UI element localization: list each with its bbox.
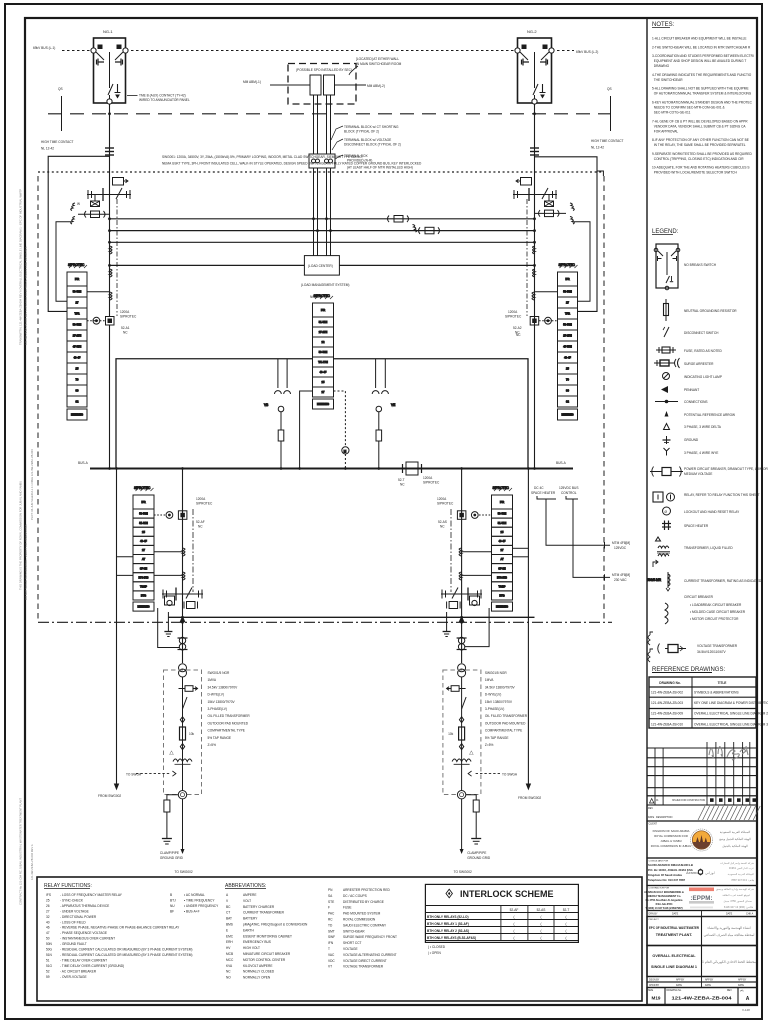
svg-text:METERING: METERING [137,607,149,609]
svg-text:FROM SWG002: FROM SWG002 [518,796,541,800]
wire lower-left feeder [182,469,184,664]
interlock scheme table [425,884,578,942]
svg-text:M: M [344,449,347,453]
svg-text:SWF: SWF [328,935,335,939]
legend fuse [656,347,676,353]
svg-text:NEUTRAL GROUNDING RESISTOR: NEUTRAL GROUNDING RESISTOR [684,309,737,313]
svg-text:- REVERSE PHASE, NEGATIVE-PHA: - REVERSE PHASE, NEGATIVE-PHASE OR PHASE… [60,926,180,930]
breaker left feeder [87,188,131,201]
svg-text:BMS: BMS [226,923,233,927]
breaker 52-T on bus [403,462,422,475]
svg-text:IFR: IFR [321,308,325,312]
svg-text:2-THE SWITCHGEAR WILL BE LOCAT: 2-THE SWITCHGEAR WILL BE LOCATED IN MTR … [652,45,751,49]
node diamond lower T2 [459,744,463,750]
svg-text:REV: REV [727,990,732,992]
svg-text:TGBP: TGBP [140,584,147,588]
svg-text:121-4W-ZEBA-ZB-002: 121-4W-ZEBA-ZB-002 [651,691,683,695]
transformer VT-2 [324,75,335,95]
svg-text:- APPARATUS THERMAL DEVICE: - APPARATUS THERMAL DEVICE [60,904,109,908]
svg-text:DRAWING: DRAWING [652,64,670,68]
svg-text:IFR: IFR [75,277,79,281]
svg-text:OUTDOOR PAD MOUNTED: OUTDOOR PAD MOUNTED [208,721,249,725]
wire bracket left to relay [56,222,72,302]
svg-text:VAC: VAC [328,953,335,957]
svg-text:• LOADBREAK CIRCUIT BREAKER: • LOADBREAK CIRCUIT BREAKER [690,603,742,607]
legend transformer symbol [653,537,670,567]
svg-text:QS: QS [607,87,612,91]
svg-text:SINGLE LINE DIAGRAM 1: SINGLE LINE DIAGRAM 1 [651,965,697,969]
svg-text:ISSUED FOR CONSTRUCTION: ISSUED FOR CONSTRUCTION [672,800,706,802]
svg-text:- TIME DELAY OVER-CURRENT: - TIME DELAY OVER-CURRENT [60,958,107,962]
svg-text:SIPROTEC: SIPROTEC [134,486,151,490]
svg-text:IFS: IFS [46,893,51,897]
svg-text:TRANSMITTAL 121-4W-ZEBA-ZB-004: TRANSMITTAL 121-4W-ZEBA-ZB-004 REV A OVE… [19,189,23,345]
svg-text:EQUIPMENT AND SHOP DESIGN WILL: EQUIPMENT AND SHOP DESIGN WILL BE AVAILE… [652,59,746,63]
transformer station service left [264,359,291,469]
svg-text:NU: NU [170,904,175,908]
issue row [647,796,757,805]
svg-text:PAC: PAC [328,912,335,916]
svg-text:125VDC: 125VDC [614,546,627,550]
royal commission seal [691,829,713,851]
svg-text:APP BY: APP BY [676,979,685,982]
svg-text:SIPROTEC: SIPROTEC [314,294,331,298]
svg-text:52: 52 [46,969,50,973]
EPPM logo [689,888,714,892]
winding loops lower-left feeder [183,548,186,580]
svg-text:DISCONNECT BLOCK (TYPICAL OF 2: DISCONNECT BLOCK (TYPICAL OF 2) [344,143,401,147]
svg-text:- RESIDUAL CURRENT CALCULATED: - RESIDUAL CURRENT CALCULATED OR MEASURE… [60,953,192,957]
legend 3 phase 4 wire wye [664,448,670,456]
svg-text:VE: VE [391,403,395,407]
svg-text:- AC CIRCUIT BREAKER: - AC CIRCUIT BREAKER [60,969,97,973]
svg-text:KSA Jub-6554: KSA Jub-6554 [656,903,673,906]
svg-text:METERING: METERING [71,415,83,417]
wire center stack tie to bus [300,391,313,469]
svg-text:TME B (AUX) CONTACT (TY-42): TME B (AUX) CONTACT (TY-42) [139,94,186,98]
svg-text:26: 26 [46,904,50,908]
svg-text:SIZE: SIZE [648,990,654,992]
svg-text:500/5-MR: 500/5-MR [647,578,662,582]
svg-text:RC: RC [328,918,333,922]
svg-text:D-WYE(LV): D-WYE(LV) [485,693,501,697]
drawing title cell [647,946,757,977]
svg-text:VT: VT [328,965,332,969]
svg-text:[LOCATED] AT EITHER WALL: [LOCATED] AT EITHER WALL [356,57,399,61]
svg-text:SIPROTEC: SIPROTEC [68,263,85,267]
svg-text:FOR APPROVAL: FOR APPROVAL [652,129,678,133]
svg-text:CLIENT: CLIENT [649,823,658,826]
wire stack 52-AF rows to feeder [154,551,183,553]
svg-text:- LOSS OF FIELD: - LOSS OF FIELD [60,920,86,924]
breaker 52-AS [441,588,482,601]
svg-text:51: 51 [46,958,50,962]
node triangle junction right [459,616,465,623]
svg-text:DRAWING No.: DRAWING No. [659,681,681,685]
svg-text:15kV 13800/7970V: 15kV 13800/7970V [208,700,236,704]
svg-text:OIL FILLED TRANSFORMER: OIL FILLED TRANSFORMER [485,714,528,718]
svg-text:• MOLDED CASE CIRCUIT BREAKER: • MOLDED CASE CIRCUIT BREAKER [690,610,746,614]
svg-text:AT: AT [142,557,146,561]
wire stack 52-AS stubs to from-line [513,547,529,549]
winding loops lower-right feeder [459,548,462,580]
svg-text:1200A: 1200A [196,497,206,501]
svg-text:• MOTOR CIRCUIT PROTECTOR: • MOTOR CIRCUIT PROTECTOR [690,617,739,621]
svg-text:TFR: TFR [74,312,79,316]
legend no-break switch symbol [654,244,680,290]
svg-text:MEDIUM VOLTAGE: MEDIUM VOLTAGE [684,472,712,476]
svg-text:51G: 51G [46,964,53,968]
svg-text:BC: BC [226,905,231,909]
svg-text:IFR: IFR [141,500,145,504]
svg-text:52-T: 52-T [398,478,405,482]
svg-text:50-50N: 50-50N [139,512,148,516]
svg-text:ROYAL COMMISSION: ROYAL COMMISSION [343,918,376,922]
svg-text:BTG: BTG [141,594,146,598]
svg-text:SURGE ARRESTER: SURGE ARRESTER [684,362,714,366]
legend disconnect switch [664,327,669,337]
svg-text:PROVIDED WITH LOCAL/REMOTE SEL: PROVIDED WITH LOCAL/REMOTE SELECTOR SWIT… [652,171,737,175]
svg-text:SYMBOLS & ABBREVIATIONS: SYMBOLS & ABBREVIATIONS [694,691,739,695]
winding T1 [173,759,192,762]
svg-text:• BUS-A+F: • BUS-A+F [184,909,200,913]
svg-text:DATE: DATE [705,984,711,987]
svg-text:pMAgATAC, FREQ/Support & CONVE: pMAgATAC, FREQ/Support & CONVERSION [243,923,308,927]
svg-text:THE SWITCHGEAR: THE SWITCHGEAR [652,78,683,82]
legend voltage transformer [648,632,686,662]
relay stack transformer center [313,294,334,409]
svg-text:MM ABM(-2): MM ABM(-2) [367,84,385,88]
legend power circuit breaker drawout [650,467,683,477]
svg-text:3 PHASE, 4 WIRE WYE: 3 PHASE, 4 WIRE WYE [684,451,718,455]
ground stub 52-AF [164,612,172,637]
svg-text:47-57N: 47-57N [73,345,82,349]
wire stack stub left [535,291,558,293]
node triangle junction left [180,616,186,623]
revision table [647,742,757,805]
svg-text:MINIATURE CIRCUIT BREAKER: MINIATURE CIRCUIT BREAKER [243,952,291,956]
svg-text:انشاء الهندسة والتوريد والانشا: انشاء الهندسة والتوريد والانشاء [707,926,750,930]
legend connection [655,401,678,403]
svg-text:عرب الدار العين 31961: عرب الدار العين 31961 [729,866,755,870]
wire terminal drops to load box [314,168,331,256]
svg-text:VDC: VDC [328,959,335,963]
enclosure main switchgear box [116,359,528,469]
legend current transformer [647,572,670,591]
svg-text:GROUND: GROUND [684,438,699,442]
svg-text:POWER CIRCUIT BREAKER, DRAWOUT: POWER CIRCUIT BREAKER, DRAWOUT TYPE, LOW… [684,467,768,471]
svg-text:NG-1: NG-1 [103,29,113,34]
svg-text:27-27N: 27-27N [319,330,328,334]
wire from swg002 left [115,469,119,790]
svg-text:NO BREAKS SWITCH: NO BREAKS SWITCH [684,263,717,267]
svg-text:DSGN BY: DSGN BY [649,980,660,982]
wire VT primary left [270,84,310,86]
svg-text:MTM 4F8[M]: MTM 4F8[M] [612,541,630,545]
boundary dash-dot fence bottom [38,621,612,623]
svg-text:MOTOR CONTROL CENTER: MOTOR CONTROL CENTER [243,958,286,962]
svg-text:OVERALL ELECTRICAL SINGLE LINE: OVERALL ELECTRICAL SINGLE LINE DIAGRAM 3 [694,722,768,726]
svg-text:VOLTAGE TRANSFORMER: VOLTAGE TRANSFORMER [697,644,738,648]
svg-text:SIPROTEC: SIPROTEC [196,502,213,506]
svg-text:1200A: 1200A [508,310,518,314]
svg-text:TFR: TFR [565,312,570,316]
wire to swgr tap T1 [172,771,176,776]
svg-text:CLAMP/PIPE: CLAMP/PIPE [467,851,486,855]
svg-text:DATE: DATE [648,816,655,819]
boundary dash-dot fence right [603,176,605,621]
svg-text:A: A [746,996,750,1002]
svg-text::EPPM:: :EPPM: [690,895,712,902]
svg-text:40-4F: 40-4F [564,356,571,360]
svg-text:- DIRECTIONAL POWER: - DIRECTIONAL POWER [60,915,97,919]
svg-text:رقم: رقم [740,989,744,992]
svg-text:50G: 50G [46,948,53,952]
breaker 52-AF [162,588,203,601]
svg-text:27-27N: 27-27N [563,334,572,338]
wire T2 internal [461,677,463,791]
fuse T1 [179,686,198,692]
svg-text:(LOAD MANAGEMENT SYSTEM): (LOAD MANAGEMENT SYSTEM) [301,283,349,287]
wire leader to dashed box [349,66,358,75]
svg-text:POTENTIAL REFERENCE ARROW: POTENTIAL REFERENCE ARROW [684,413,735,417]
wire left feeder upper [109,104,111,316]
legend relay device [653,492,675,502]
svg-text:1MVA: 1MVA [485,678,494,682]
node right bay box [535,157,598,312]
ammeter circle T2 [457,791,465,799]
svg-text:BTH ONLY RELAYS (B-52-AF&S): BTH ONLY RELAYS (B-52-AF&S) [427,936,476,940]
wire callout leaders [331,126,343,159]
svg-text:NC: NC [226,970,231,974]
svg-text:VB: VB [264,403,268,407]
svg-text:NORMALLY OPEN: NORMALLY OPEN [243,976,271,980]
fuse T2 [447,686,466,692]
svg-text:PROJECT: PROJECT [649,919,660,921]
svg-text:GROUND GRID: GROUND GRID [467,856,491,860]
svg-text:( • CLOSED: ( • CLOSED [428,945,446,949]
wire bus L1 [110,218,536,220]
svg-text:KILOVOLT AMPERE: KILOVOLT AMPERE [243,964,272,968]
svg-text:SAUDI ARAMCO DMA/JUB-DD1-B: SAUDI ARAMCO DMA/JUB-DD1-B [648,863,693,867]
surge arrester 3-phase marks left [71,203,75,224]
svg-text:PN: PN [328,888,333,892]
svg-text:الهيئة الملكية بالجبيل: الهيئة الملكية بالجبيل [722,844,748,848]
svg-text:1MVA: 1MVA [208,678,217,682]
relay stack feeder 52-AF [133,486,154,611]
consultant block [647,858,757,886]
svg-text:BTJ: BTJ [170,899,176,903]
wire stack bottom loop 52-AF [158,608,179,648]
svg-text:V-148: V-148 [742,1008,750,1012]
metering right feeder [530,317,557,326]
wire bus L4 [110,264,536,266]
resistor T1 10k [180,727,186,740]
relay stack feeder 52-AS [492,486,513,611]
svg-text:4-THE DRAWING INDICATES THE RE: 4-THE DRAWING INDICATES THE REQUIREMENTS… [652,73,752,77]
svg-text:50-50N: 50-50N [563,323,572,327]
svg-text:SWG01/5 NGR: SWG01/5 NGR [208,671,230,675]
svg-text:BUS-A: BUS-A [556,461,567,465]
svg-text:صنداق العصور 4756 جمبل: صنداق العصور 4756 جمبل [724,899,753,903]
svg-text:32: 32 [46,915,50,919]
winding T2 [452,759,471,762]
svg-text:NEEDS TO CONFIRM SEC-MTR-COM-G: NEEDS TO CONFIRM SEC-MTR-COM-GE-001 & [652,106,726,110]
svg-text:KEY ONE LINE DIAGRAM & POWER D: KEY ONE LINE DIAGRAM & POWER DISTRIBUTIO… [694,701,768,705]
CT on L1 right [388,216,409,223]
legend 3 phase 3 wire delta [664,424,670,430]
svg-text:لمحطة معالجة مياه الصرف الصناع: لمحطة معالجة مياه الصرف الصناعي [704,933,755,937]
svg-text:OF AUTOMATIC/MANUAL TRANSFER S: OF AUTOMATIC/MANUAL TRANSFER SYSTEM & IN… [652,92,752,96]
svg-text:NC: NC [198,525,203,529]
svg-text:لوزاني: لوزاني [705,870,715,875]
svg-text:52-AF: 52-AF [196,520,205,524]
svg-text:Kingdom Of Saudi Arabia: Kingdom Of Saudi Arabia [648,873,682,877]
svg-text:OIL FILLED TRANSFORMER: OIL FILLED TRANSFORMER [208,714,251,718]
svg-text:COMPARTMENTAL TYPE: COMPARTMENTAL TYPE [485,729,522,733]
transformer T2 VT circles [458,664,466,677]
legend space heater [662,521,671,531]
metering left feeder [87,317,114,326]
wire T1 internal [182,677,184,791]
svg-text:EMC: EMC [226,934,234,938]
wire neutral ground leg T2 [466,795,477,800]
svg-text:SWG01/5 NGR: SWG01/5 NGR [485,671,507,675]
svg-text:50-50N: 50-50N [498,512,507,516]
svg-text:WIRED TO ANNUNCIATOR PANEL: WIRED TO ANNUNCIATOR PANEL [139,98,190,102]
winding loop 3 left [110,292,113,300]
svg-text:NEMA GSKT TYPE, 3PH, FRONT INS: NEMA GSKT TYPE, 3PH, FRONT INSULATED CEL… [162,162,422,166]
boundary dash-dot fence left [37,176,39,622]
CT right feeder [516,178,532,186]
svg-text:3-COORDINATION AND STUDIES PER: 3-COORDINATION AND STUDIES PERFORMED BET… [652,54,754,58]
node 69kV bus L-1 dotted line [62,50,93,52]
surge component right bay [545,195,554,207]
svg-text:CONTROL: CONTROL [561,491,577,495]
svg-text:69kV BUS (L-2): 69kV BUS (L-2) [576,50,598,54]
svg-text:APP BY: APP BY [738,979,747,982]
svg-text:F: F [328,906,330,910]
svg-text:TERMINAL BLOCK w/ VOLTAGE: TERMINAL BLOCK w/ VOLTAGE [344,138,391,142]
svg-text:121-4W-ZEBA-ZB-003: 121-4W-ZEBA-ZB-003 [651,701,683,705]
node diamond lower T1 [180,744,184,750]
svg-text:- RESIDUAL CURRENT CALCULATED: - RESIDUAL CURRENT CALCULATED OR MEASURE… [60,948,192,952]
CT on L2 [413,225,440,234]
wire bus L3 [110,241,536,243]
svg-text:CONTROL (TRIPPING, CLOSING ETC: CONTROL (TRIPPING, CLOSING ETC) INDICATI… [652,157,744,161]
svg-text:TD: TD [328,923,333,927]
CT left feeder [113,178,129,186]
transformer T2 dashed enclosure [443,670,481,795]
svg-text:9F-9N: 9F-9N [140,566,147,570]
svg-text:CONTRACTOR FOR: CONTRACTOR FOR [649,887,670,890]
svg-text:51N: 51N [46,953,53,957]
royal commission block [647,821,757,858]
svg-text:(POSSIBLE SPO INSTALLED BY SEC: (POSSIBLE SPO INSTALLED BY SEC) [296,68,352,72]
wire 69kV bus dotted span [126,50,516,52]
svg-text:50-50N: 50-50N [73,323,82,327]
svg-text:ERH: ERH [226,940,233,944]
transformer T1 dashed enclosure [164,670,202,795]
svg-text:ARRESTER PROTECTION RED: ARRESTER PROTECTION RED [343,888,390,892]
svg-text:NC: NC [515,331,520,335]
svg-text:SWITCHGEAR: SWITCHGEAR [343,929,365,933]
svg-text:SIPROTEC: SIPROTEC [423,481,440,485]
CT pair 52-AF neutral [178,637,188,650]
svg-text:CONTRACT No 121-C64 RC JUBAIL: CONTRACT No 121-C64 RC JUBAIL INDUSTRIAL… [19,798,23,905]
svg-text:SIPROTEC: SIPROTEC [559,263,576,267]
svg-text:27: 27 [46,909,50,913]
svg-text:SIPROTEC: SIPROTEC [493,486,510,490]
svg-text:PLOT: 04-JUN ScaleFULL 1:1 DWG: PLOT: 04-JUN ScaleFULL 1:1 DWG 121-4W-ZE… [30,449,34,520]
svg-text:DISTRIBUTED BY CHARGE: DISTRIBUTED BY CHARGE [343,900,384,904]
svg-text:1200A: 1200A [437,497,447,501]
svg-text:ROYAL COMMISSION IN JUBAIL: ROYAL COMMISSION IN JUBAIL [651,844,692,848]
svg-text:10-ADEQUATE, FOR THE AND ROTAT: 10-ADEQUATE, FOR THE AND ROTATING HEATER… [652,166,749,170]
svg-text:OVERALL ELECTRICAL SINGLE LINE: OVERALL ELECTRICAL SINGLE LINE DIAGRAM 2 [694,712,768,716]
winding loop 3 right [532,292,535,300]
svg-text:TGBP: TGBP [498,584,505,588]
svg-text:8-IF ANY PROTECTION OF ANY OTH: 8-IF ANY PROTECTION OF ANY OTHER FUNCTIO… [652,138,749,142]
svg-text:TITLE: TITLE [718,681,727,685]
svg-text:BF: BF [170,909,174,913]
relay 52-T metering [334,391,350,469]
wire bus L2 [110,230,536,232]
svg-text:VOLTAGE DIRECT CURRENT: VOLTAGE DIRECT CURRENT [343,959,387,963]
svg-text:SPACE HEATER: SPACE HEATER [684,524,709,528]
svg-text:OVERALL ELECTRICAL: OVERALL ELECTRICAL [652,954,696,958]
svg-text:Z=5%: Z=5% [208,743,217,747]
svg-text:CHKD BY: CHKD BY [649,985,660,987]
svg-text:IFN: IFN [328,941,334,945]
svg-text:EMERGENCY BUS: EMERGENCY BUS [243,940,271,944]
svg-text:NO: NO [226,976,231,980]
winding loops left feeder [110,246,113,277]
svg-text:5-ALL DRAWING SHALL NOT BE SUP: 5-ALL DRAWING SHALL NOT BE SUPPLIED WITH… [652,87,749,91]
wire dash-dot trip right [450,509,452,592]
svg-text:50-50N: 50-50N [563,290,572,294]
svg-text:• TIME FREQUENCY: • TIME FREQUENCY [184,899,215,903]
svg-text:METERING: METERING [561,415,573,417]
svg-text:KINGDOM OF SAUDI ARABIA: KINGDOM OF SAUDI ARABIA [653,829,690,833]
svg-text:TO SWGA: TO SWGA [502,773,518,777]
wire heater feed [537,496,610,581]
drawing number row [647,988,757,1005]
svg-text:10k: 10k [448,732,454,736]
svg-text:DESCRIPTION: DESCRIPTION [656,816,673,819]
svg-text:50: 50 [46,937,50,941]
svg-text:DATE: DATE [726,913,733,916]
svg-text:Telephone No: 013 347 7887: Telephone No: 013 347 7887 [648,878,686,882]
legend pennant [661,386,668,393]
switch NG-1 [91,38,128,104]
svg-text:40-4F: 40-4F [320,370,327,374]
svg-text:7-AL GENE OF CB & PT WILL BE D: 7-AL GENE OF CB & PT WILL BE DEVELOPED B… [652,119,748,123]
svg-text:TFL-TFM: TFL-TFM [318,362,328,364]
svg-text:ENERGY MANAGEMENT Co.: ENERGY MANAGEMENT Co. [647,895,681,898]
ammeter circle T1 [178,791,186,799]
svg-text:CLAMP/PIPE: CLAMP/PIPE [160,851,179,855]
svg-text:BATTERY: BATTERY [243,917,258,921]
svg-text:FUSE, RATED AS NOTED: FUSE, RATED AS NOTED [684,349,723,353]
svg-text:ARABIAN GULF ENGINEERING &: ARABIAN GULF ENGINEERING & [644,891,684,894]
svg-text:34.5kV/120/110/67V: 34.5kV/120/110/67V [697,650,727,654]
svg-text:SURGE WAVE FREQUENCY FRONT: SURGE WAVE FREQUENCY FRONT [343,935,397,939]
wire left feeder to bus [109,325,111,469]
svg-text:| • OPEN: | • OPEN [428,951,441,955]
svg-text:69kV BUS (L-1): 69kV BUS (L-1) [33,46,55,50]
svg-text:MM ABM(-1): MM ABM(-1) [243,80,261,84]
